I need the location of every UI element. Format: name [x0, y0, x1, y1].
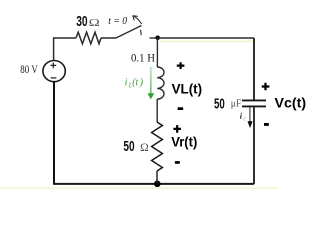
label + (Vc)	[262, 83, 270, 91]
wire top-right horizontal	[158, 37, 254, 39]
label - (Vr)	[175, 161, 180, 164]
wire inductor to resistor	[156, 99, 158, 122]
wire left vertical lower	[53, 82, 55, 184]
wire top-left horizontal	[54, 37, 76, 39]
label - (VL)	[178, 107, 184, 110]
svg-text:0.1 H: 0.1 H	[131, 50, 155, 64]
wire resistor to switch	[101, 37, 116, 39]
artifact tint bottom wire	[0, 187, 278, 189]
switch contact tick	[140, 30, 143, 35]
resistor R2 50ohm zigzag vertical	[152, 122, 163, 171]
svg-text:t = 0: t = 0	[108, 15, 127, 27]
wire left vertical upper	[53, 37, 55, 60]
source minus sign	[51, 77, 57, 79]
svg-text:80 V: 80 V	[20, 64, 38, 76]
voltage source V1 80V circle	[43, 61, 65, 82]
wire bottom horizontal	[53, 183, 254, 185]
artifact tint top wire	[160, 41, 253, 43]
wire right vertical upper	[253, 38, 255, 100]
wire stub to node	[150, 37, 159, 39]
label + (VL)	[177, 62, 185, 69]
svg-text:Vc(t): Vc(t)	[275, 94, 307, 110]
svg-text:VL(t): VL(t)	[172, 81, 203, 97]
wire resistor to bottom	[156, 171, 158, 184]
svg-text:μF: μF	[231, 98, 242, 109]
svg-text:50: 50	[214, 96, 225, 113]
source plus sign	[51, 63, 57, 69]
node A junction dot	[155, 36, 160, 41]
label ic	[240, 113, 242, 119]
svg-text:Vr(t): Vr(t)	[171, 133, 197, 149]
current arrow ic	[249, 108, 251, 122]
wire right vertical lower	[253, 107, 255, 184]
svg-text:Ω: Ω	[89, 17, 100, 29]
svg-text:30: 30	[76, 14, 87, 30]
switch closing arc arrow	[134, 16, 142, 24]
svg-text:Ω: Ω	[140, 142, 149, 154]
capacitor C1 plates	[242, 99, 266, 101]
switch SW blade	[116, 26, 142, 39]
wire node to inductor	[156, 38, 158, 67]
label + (Vr)	[173, 125, 181, 133]
current arrow iL	[150, 67, 152, 94]
svg-text:50: 50	[123, 138, 134, 155]
label - (Vc)	[264, 123, 269, 126]
inductor L1 coil	[157, 67, 164, 99]
label iL(t)	[125, 78, 143, 88]
resistor R1 30ohm zigzag	[76, 32, 101, 44]
node B junction dot	[154, 181, 161, 188]
